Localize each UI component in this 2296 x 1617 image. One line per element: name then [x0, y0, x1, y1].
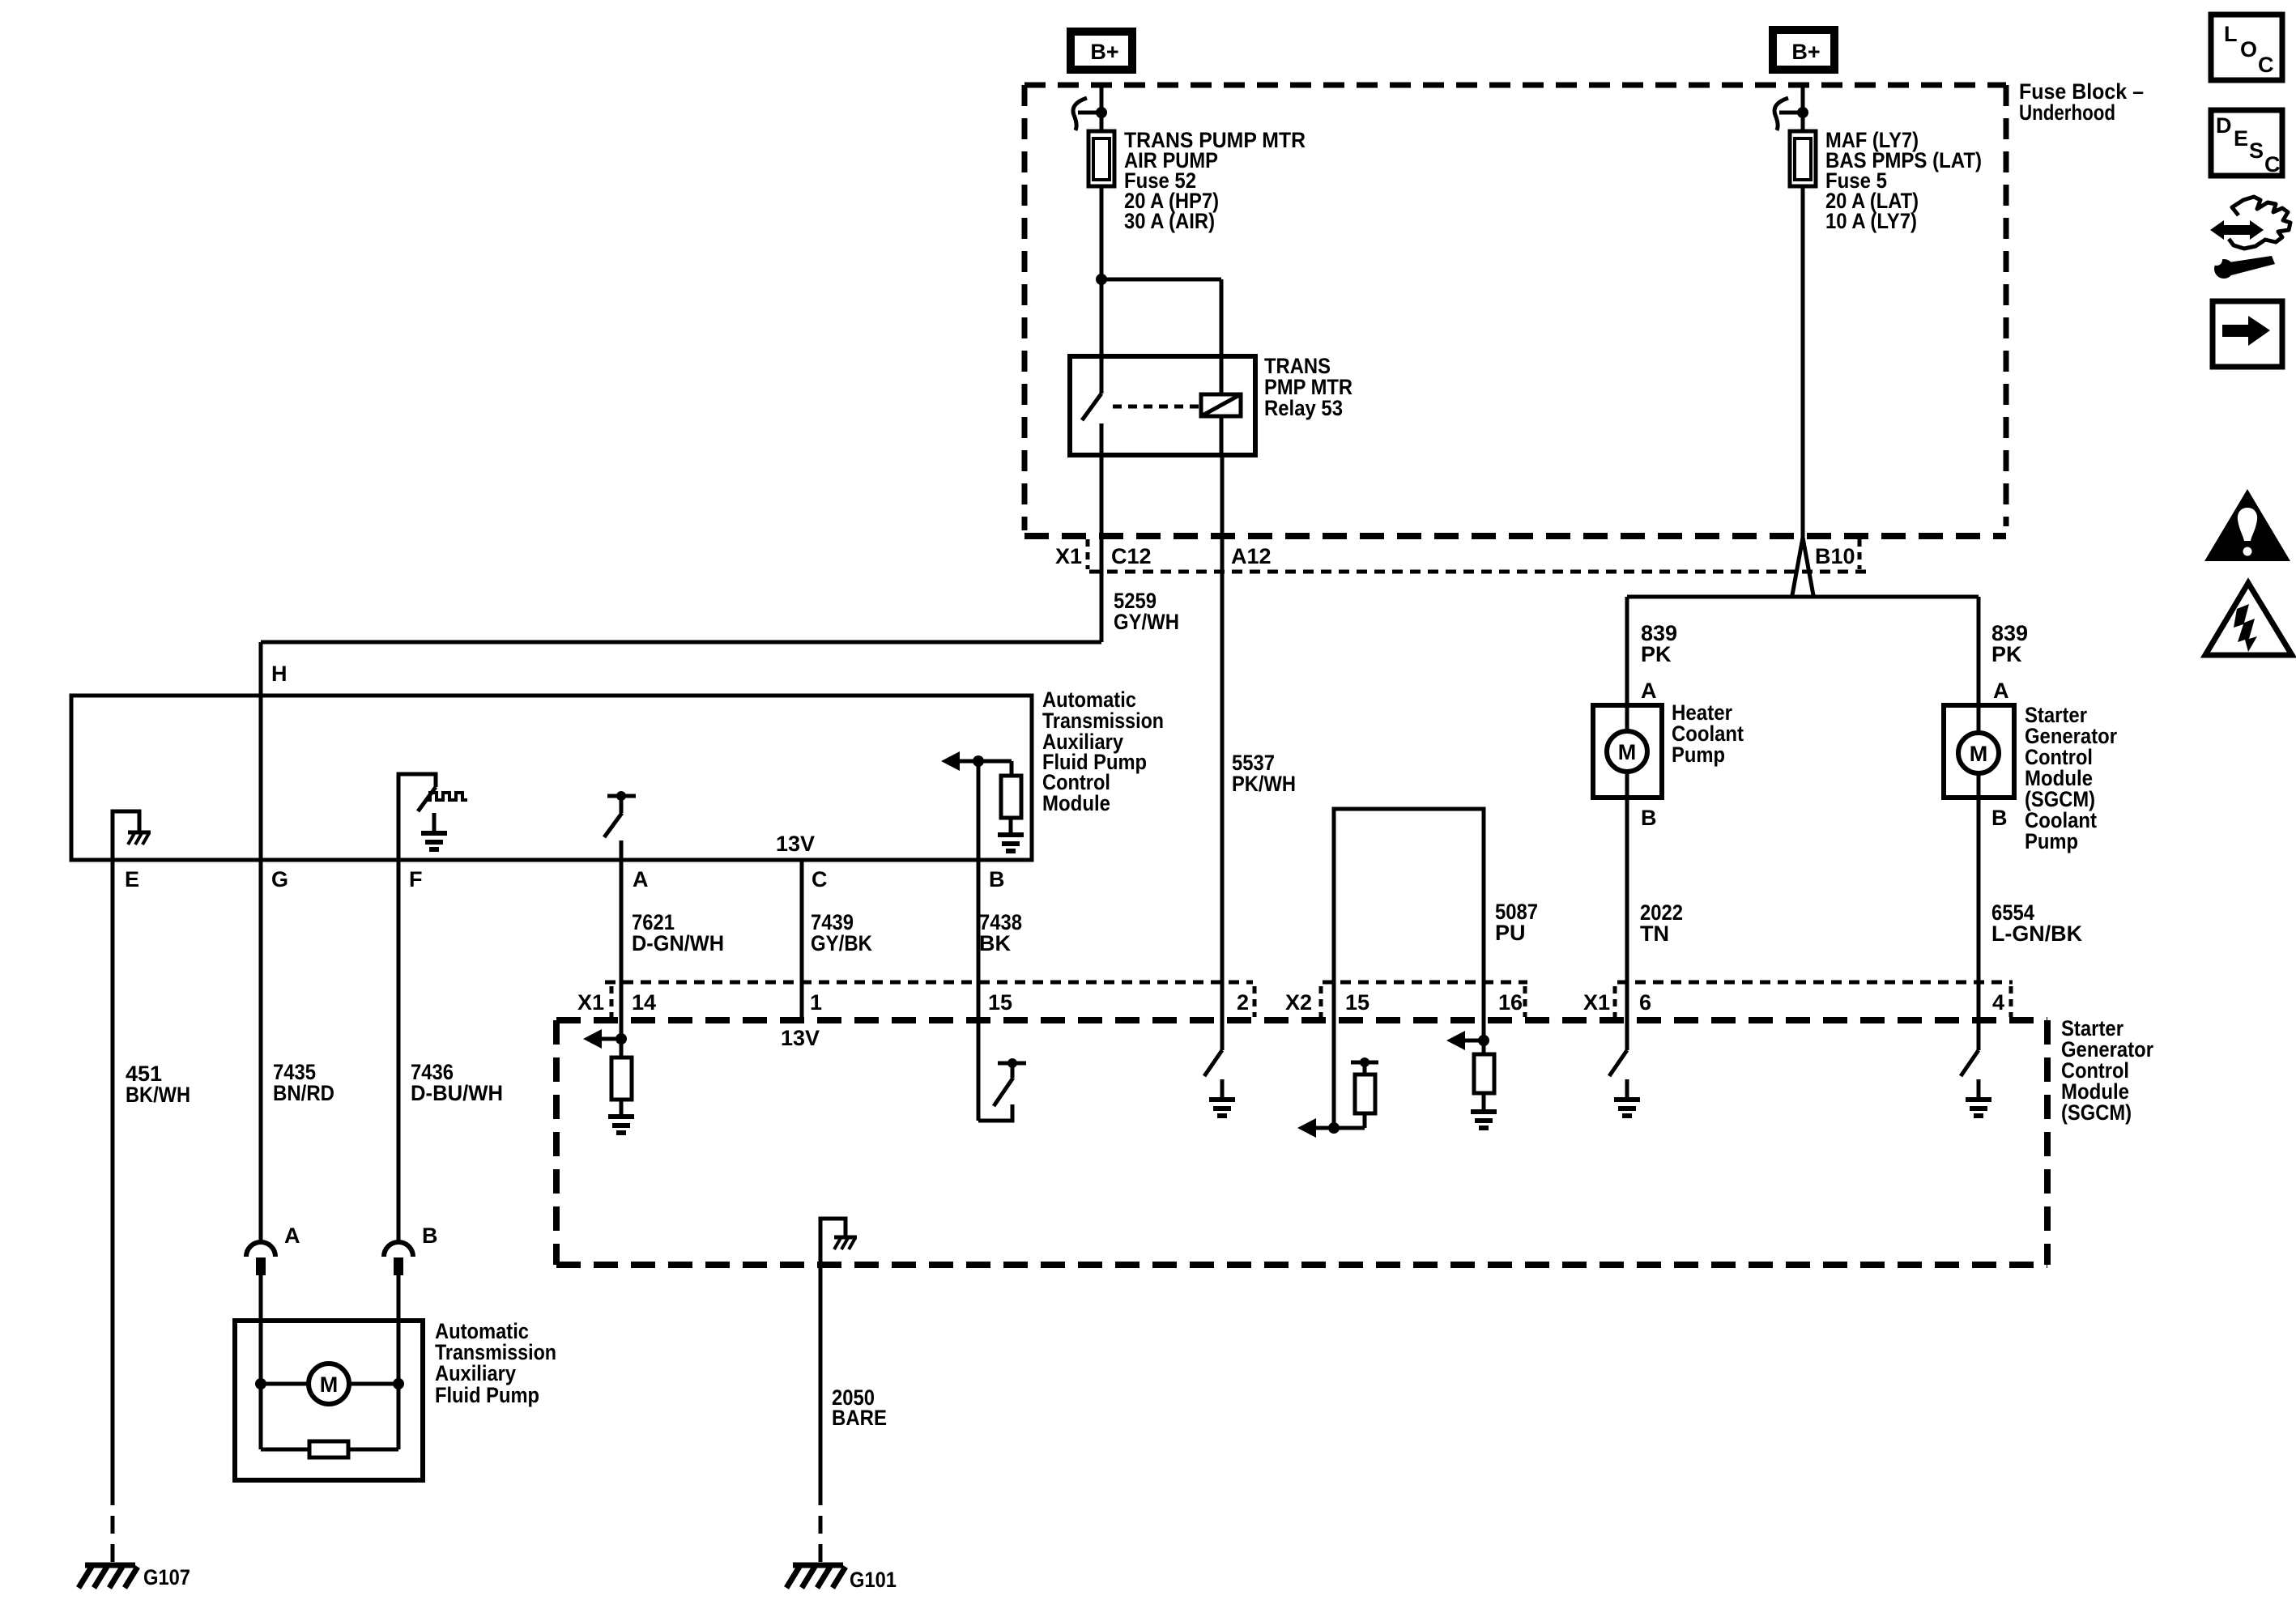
module pin E internal chassis ground [113, 811, 139, 860]
sgcm box heavy dashed top [556, 1017, 2047, 1023]
wire 5259 relay to H run [1100, 455, 1104, 642]
svg-text:15: 15 [1345, 990, 1370, 1015]
module pin B internal resistor to ground [941, 751, 960, 771]
svg-text:M: M [1618, 740, 1637, 764]
svg-text:H: H [271, 662, 288, 686]
svg-text:GY/BK: GY/BK [811, 931, 872, 955]
svg-text:BN/RD: BN/RD [273, 1081, 334, 1105]
fuse 52 [1088, 131, 1114, 186]
wire branch to relay coil leg [1101, 278, 1221, 282]
icon arrow box [2213, 301, 2282, 367]
svg-text:Pump: Pump [2025, 829, 2078, 853]
separator dash after 4 [2009, 986, 2013, 1017]
heater coolant pump box [1593, 705, 1662, 798]
icon lightning triangle [2205, 583, 2292, 655]
svg-text:A: A [1993, 679, 2009, 703]
svg-text:B+: B+ [1090, 40, 1118, 64]
separator dash after 16 [1523, 986, 1527, 1017]
svg-text:Pump: Pump [1672, 743, 1725, 767]
svg-text:13V: 13V [776, 832, 815, 856]
svg-text:F: F [409, 867, 423, 891]
svg-text:Auxiliary: Auxiliary [435, 1361, 516, 1385]
pump terminal B connector [384, 1242, 413, 1257]
svg-text:A: A [1641, 679, 1657, 703]
svg-text:13V: 13V [781, 1026, 820, 1050]
svg-text:A: A [633, 867, 649, 891]
B+ terminal left [1071, 32, 1132, 70]
separator dash after X2 [1319, 986, 1323, 1017]
svg-text:S: S [2249, 138, 2264, 163]
svg-text:Underhood: Underhood [2019, 100, 2115, 125]
svg-text:Fluid Pump: Fluid Pump [435, 1383, 539, 1407]
wire 7436 D-BU/WH [397, 860, 401, 1242]
wire 7435 BN/RD [259, 860, 263, 1242]
junction node left B+ [1096, 107, 1107, 118]
svg-text:B: B [1641, 806, 1657, 830]
wire H run horizontal [261, 640, 1101, 645]
sgcm coolant pump box [1944, 705, 2014, 798]
separator dash B10 [1858, 539, 1862, 569]
motor M fluid pump [309, 1364, 349, 1404]
svg-text:M: M [1970, 742, 1988, 766]
fusible link hook left [1073, 98, 1087, 130]
wire fuse 5 to connector B10 [1801, 186, 1805, 538]
svg-text:PU: PU [1495, 921, 1526, 945]
svg-text:G101: G101 [850, 1568, 897, 1592]
ground G101 [793, 1563, 843, 1568]
icon warning triangle [2204, 489, 2290, 561]
relay 53 box [1070, 356, 1255, 455]
wire 2050 BARE [819, 1265, 823, 1487]
ground G107 [85, 1563, 135, 1568]
sgcm pin 6 switch to ground [1609, 1050, 1627, 1076]
svg-text:16: 16 [1498, 990, 1523, 1015]
wire 839 split horizontal [1627, 595, 1979, 599]
module pin A internal switch [607, 794, 636, 798]
svg-text:GY/WH: GY/WH [1114, 610, 1179, 634]
wire 7438 pin B down [977, 761, 981, 1121]
svg-text:E: E [2234, 126, 2248, 151]
svg-text:4: 4 [1992, 990, 2004, 1015]
sgcm X2 bracket [1334, 809, 1484, 982]
wire B+ right to fuse 5 [1801, 85, 1805, 134]
svg-text:14: 14 [632, 990, 656, 1015]
svg-text:BK/WH: BK/WH [126, 1083, 190, 1107]
svg-text:X1: X1 [1583, 990, 1610, 1015]
wire 6554 L-GN/BK [1977, 798, 1981, 1050]
sgcm pin 2 switch to ground [1204, 1050, 1222, 1076]
module pin F internal driver [398, 774, 436, 860]
wire 7439 pin C down [800, 860, 804, 1020]
svg-text:B: B [422, 1223, 438, 1248]
svg-text:PK: PK [1991, 642, 2022, 666]
icon DESC box [2211, 110, 2282, 176]
separator dash after X1 [610, 986, 614, 1017]
svg-text:10 A (LY7): 10 A (LY7) [1825, 209, 1917, 233]
svg-text:A: A [284, 1223, 300, 1248]
svg-text:TN: TN [1640, 921, 1669, 946]
svg-text:(SGCM): (SGCM) [2061, 1100, 2132, 1125]
connector line X1 fuse block (thin dashed) [1089, 570, 1872, 574]
separator dash after second X1 [1613, 986, 1617, 1017]
relay switch [1100, 356, 1104, 394]
pump internal resistor [259, 1384, 263, 1449]
svg-text:C: C [2258, 53, 2274, 77]
automatic transmission auxiliary fluid pump box [235, 1321, 423, 1480]
svg-text:Module: Module [1042, 791, 1110, 815]
junction node right B+ [1797, 107, 1808, 118]
svg-text:Relay 53: Relay 53 [1264, 396, 1343, 420]
automatic transmission aux fluid pump control module box [71, 696, 1032, 860]
fuse block underhood dashed box border [1024, 83, 2006, 88]
motor M sgcm coolant pump [1958, 733, 1999, 773]
svg-text:A12: A12 [1231, 544, 1272, 568]
svg-text:L-GN/BK: L-GN/BK [1991, 921, 2082, 946]
svg-text:D-GN/WH: D-GN/WH [632, 931, 724, 955]
fuse 5 [1790, 131, 1816, 186]
icon LOC box [2211, 15, 2282, 80]
connector B10 split [1792, 538, 1803, 595]
wire 2022 TN [1625, 798, 1629, 1050]
svg-text:G107: G107 [143, 1565, 190, 1589]
B+ terminal right [1773, 30, 1834, 70]
svg-text:C: C [2264, 152, 2281, 177]
sgcm dashed box left/bottom/right [553, 1020, 560, 1265]
relay actuating dashed link [1113, 405, 1199, 409]
svg-text:D-BU/WH: D-BU/WH [411, 1081, 503, 1105]
wire fuse 52 to relay [1100, 186, 1104, 356]
svg-text:30 A (AIR): 30 A (AIR) [1124, 209, 1215, 233]
connector line X1 fuse block (heavy dashed) [1024, 533, 2006, 539]
wire 2050 BARE internal chassis ground [820, 1219, 846, 1265]
junction node relay branch [1096, 274, 1107, 285]
svg-text:1: 1 [810, 990, 822, 1015]
fusible link hook right [1774, 98, 1788, 130]
pump terminal A connector [246, 1242, 275, 1257]
svg-text:PK: PK [1641, 642, 1672, 666]
svg-text:C12: C12 [1111, 544, 1152, 568]
svg-text:6: 6 [1639, 990, 1651, 1015]
relay coil [1201, 394, 1241, 416]
wire 5537 relay to SGCM pin 2 [1220, 455, 1225, 1050]
wire 451 BK/WH [111, 860, 115, 1487]
svg-text:C: C [811, 867, 828, 891]
sgcm pin 16 X2 resistor to ground [1482, 982, 1486, 1054]
svg-text:M: M [320, 1372, 339, 1397]
sgcm pin 14 resistor to ground [583, 1029, 602, 1049]
wire B+ left to fuse 52 [1100, 85, 1104, 134]
sgcm pin 15 switch [978, 1104, 1012, 1121]
svg-text:B10: B10 [1815, 544, 1855, 568]
wire 839 left branch [1625, 597, 1629, 705]
svg-text:X1: X1 [1055, 544, 1082, 568]
sgcm pin 4 switch to ground [1961, 1050, 1979, 1076]
svg-text:X1: X1 [577, 990, 604, 1015]
svg-text:BK: BK [979, 931, 1011, 955]
sgcm connector thin dashed line [605, 981, 1253, 985]
sgcm pin 15 X2 resistor [1332, 982, 1336, 1128]
svg-text:E: E [125, 867, 139, 891]
svg-text:15: 15 [988, 990, 1012, 1015]
svg-text:2: 2 [1237, 990, 1249, 1015]
svg-text:O: O [2240, 37, 2257, 62]
svg-text:B: B [989, 867, 1005, 891]
separator dash X1/C12 [1086, 539, 1090, 569]
separator dash before X2 [1253, 986, 1257, 1017]
motor M heater coolant pump [1607, 731, 1647, 772]
svg-text:G: G [271, 867, 288, 891]
svg-text:D: D [2216, 113, 2232, 138]
svg-text:BARE: BARE [832, 1406, 887, 1430]
wire 839 right branch [1977, 597, 1981, 705]
wire 7621 pin A down [620, 840, 624, 1039]
svg-text:PK/WH: PK/WH [1232, 772, 1296, 796]
wire H down through module to pump terminal A [259, 642, 263, 1242]
svg-text:B: B [1991, 806, 2008, 830]
svg-text:X2: X2 [1285, 990, 1312, 1015]
svg-text:L: L [2224, 22, 2238, 46]
icon hand with wrench [2210, 220, 2264, 240]
svg-text:B+: B+ [1791, 40, 1820, 64]
